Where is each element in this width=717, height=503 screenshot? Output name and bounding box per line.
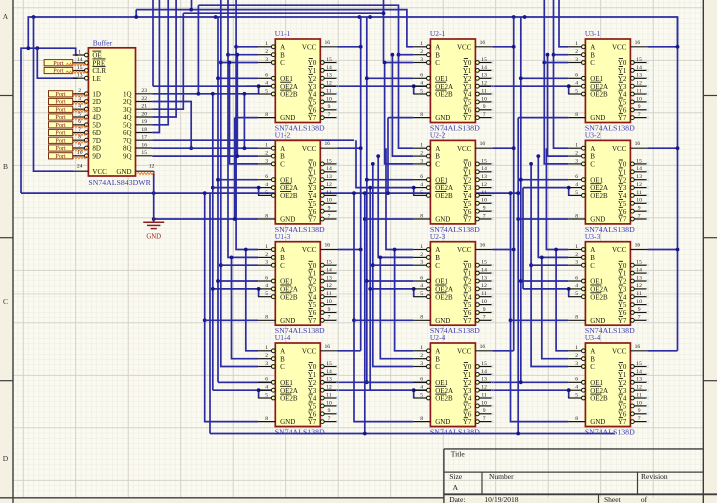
title block frame: [444, 449, 717, 503]
svg-text:7D: 7D: [92, 137, 101, 145]
decoder U1-1 pin 13 Y2: [308, 73, 339, 83]
svg-text:Y1: Y1: [308, 168, 317, 176]
wire A tap col1 row1: [236, 46, 258, 48]
svg-text:14: 14: [77, 57, 83, 63]
wire chain B4 col3: [542, 257, 568, 358]
svg-text:2: 2: [78, 88, 81, 94]
svg-text:3: 3: [78, 96, 81, 102]
svg-text:3: 3: [575, 361, 578, 367]
svg-text:U3-2: U3-2: [585, 131, 601, 140]
decoder U2-1 pin 11 Y4: [463, 88, 494, 98]
wire OE2A tap col3 row3: [523, 288, 568, 290]
wire GND tap col2 row2: [365, 218, 413, 220]
decoder U2-2 pin 9 Y6: [463, 206, 494, 216]
svg-text:Y1: Y1: [308, 270, 317, 278]
svg-text:Y0: Y0: [308, 59, 317, 67]
decoder U1-4 pin 2 B: [258, 353, 285, 363]
svg-text:A: A: [280, 43, 285, 51]
buffer SN74ALS843DWR body: [88, 48, 135, 176]
svg-text:2: 2: [575, 252, 578, 258]
wire GND horizontal net: [21, 192, 519, 194]
svg-text:Y4: Y4: [308, 91, 317, 99]
svg-text:Y4: Y4: [618, 293, 627, 301]
decoder U2-3 pin 11 Y4: [463, 291, 494, 301]
decoder U1-3 pin 15 Y0: [308, 260, 339, 270]
svg-text:8: 8: [575, 416, 578, 422]
wire GND tap col3 row3: [511, 319, 569, 321]
svg-text:1Q: 1Q: [123, 90, 132, 98]
svg-text:1: 1: [265, 345, 268, 351]
wire VCC top rail: [28, 17, 677, 48]
wire buffer 1Q output: [152, 5, 198, 94]
junction OE2A col2 row3: [368, 287, 372, 291]
decoder U3-4 pin 12 Y3: [618, 385, 649, 395]
buffer pin 21 3Q: [123, 104, 152, 114]
wire OE1 tap col3 row1: [521, 77, 568, 79]
wire OE2A rail col2: [369, 188, 371, 391]
svg-text:16: 16: [480, 344, 486, 350]
port D9: [49, 153, 73, 160]
svg-text:Title: Title: [451, 450, 466, 459]
port D6: [49, 129, 73, 136]
svg-text:14: 14: [326, 65, 332, 71]
junction GND rail B row2 col3: [516, 217, 520, 221]
wire GND tap col1 row3: [205, 319, 258, 321]
junction chain B3 top col2: [376, 154, 380, 158]
junction OE1 col1 row1: [216, 76, 220, 80]
svg-text:Y0: Y0: [618, 161, 627, 169]
svg-text:7: 7: [483, 315, 486, 321]
junction OE1 rail col1 top: [214, 15, 218, 19]
svg-text:2: 2: [265, 353, 268, 359]
wire OE2A tap col1 col2 row4: [213, 389, 413, 391]
svg-text:4: 4: [420, 81, 423, 87]
svg-text:Y5: Y5: [463, 200, 472, 208]
svg-text:OE2A: OE2A: [435, 83, 453, 91]
junction B tap col3: [552, 53, 556, 57]
decoder U1-1 pin 11 Y4: [308, 88, 339, 98]
decoder U1-2 pin 6 OE1: [258, 174, 293, 184]
junction chain B4 top col1: [230, 256, 234, 260]
decoder U1-1 pin 7 Y7: [308, 112, 339, 122]
decoder U2-4 pin 10 Y5: [463, 400, 494, 410]
svg-text:C: C: [280, 161, 285, 169]
decoder U1-2 pin 15 Y0: [308, 158, 339, 168]
decoder U1-1 pin 16 VCC: [302, 40, 338, 52]
svg-text:SN74ALS138D: SN74ALS138D: [585, 428, 635, 437]
svg-text:GND: GND: [590, 114, 605, 122]
svg-text:16: 16: [480, 243, 486, 249]
svg-text:OE1: OE1: [590, 278, 603, 286]
junction VCC rail col2: [512, 15, 516, 19]
svg-text:C: C: [435, 59, 440, 67]
wire OE2A tap col1 row3: [213, 288, 258, 290]
junction VCC col2 row2: [512, 146, 516, 150]
svg-text:Y7: Y7: [308, 317, 317, 325]
svg-text:4: 4: [78, 104, 81, 110]
decoder U2-2 pin 8 GND: [413, 213, 450, 223]
error squiggle port 2: [66, 71, 87, 73]
svg-text:Y1: Y1: [618, 67, 627, 75]
buffer pin 14 PRE: [73, 57, 106, 67]
svg-text:OE1: OE1: [590, 75, 603, 83]
decoder U3-4 pin 5 OE2B: [568, 392, 608, 402]
svg-text:3: 3: [265, 260, 268, 266]
svg-text:10: 10: [636, 299, 642, 305]
decoder U1-2 pin 14 Y1: [308, 166, 339, 176]
svg-text:13: 13: [481, 377, 487, 383]
decoder U1-1 pin 9 Y6: [308, 104, 339, 114]
svg-text:1: 1: [575, 143, 578, 149]
wire GND tap col2 row1: [388, 117, 413, 119]
decoder U1-1 pin 2 B: [258, 49, 285, 59]
svg-text:9: 9: [483, 307, 486, 313]
svg-text:A: A: [435, 43, 440, 51]
svg-text:16: 16: [635, 344, 641, 350]
decoder U2-3 pin 4 OE2A: [413, 283, 453, 293]
buffer pin 23 1Q: [123, 88, 152, 98]
junction OE1 cross col2: [365, 380, 369, 384]
buffer pin 15 9Q: [123, 150, 152, 160]
decoder U2-4 SN74ALS138D body: [430, 343, 475, 427]
junction OE1 cross col3: [519, 380, 523, 384]
decoder U3-3 pin 3 C: [568, 260, 595, 270]
decoder U2-2 pin 10 Y5: [463, 198, 494, 208]
svg-text:13: 13: [636, 377, 642, 383]
svg-text:21: 21: [141, 104, 147, 110]
junction select C col2: [382, 11, 386, 15]
svg-text:GND: GND: [280, 317, 295, 325]
svg-text:15: 15: [481, 361, 487, 367]
decoder U2-3 pin 10 Y5: [463, 299, 494, 309]
buffer pin 22 2Q: [123, 96, 152, 106]
decoder U1-4 pin 14 Y1: [308, 369, 339, 379]
svg-text:VCC: VCC: [457, 347, 472, 355]
svg-text:5: 5: [575, 392, 578, 398]
svg-text:5: 5: [575, 88, 578, 94]
svg-text:A: A: [590, 246, 595, 254]
wire select C horizontal: [183, 12, 383, 14]
wire VCC tap col1 row3: [338, 249, 361, 251]
decoder U3-1 pin 11 Y4: [618, 88, 649, 98]
junction OE2B jog col3 row4: [567, 388, 571, 392]
svg-text:12: 12: [636, 283, 642, 289]
decoder U2-1 pin 13 Y2: [463, 73, 494, 83]
svg-text:Port: Port: [55, 107, 66, 114]
wire OE1 tap col1 row1: [218, 77, 258, 79]
svg-text:Y2: Y2: [463, 75, 472, 83]
decoder U1-1 pin 10 Y5: [308, 96, 339, 106]
decoder U3-1 pin 6 OE1: [568, 73, 603, 83]
svg-text:1: 1: [575, 41, 578, 47]
decoder U2-2 pin 1 A: [413, 143, 440, 153]
svg-text:B: B: [435, 51, 440, 59]
wire VCC tap col3 row2: [648, 147, 678, 149]
svg-text:B: B: [280, 355, 285, 363]
svg-text:16: 16: [325, 141, 331, 147]
svg-text:10: 10: [481, 400, 487, 406]
wire OE2B jog col2 row3: [413, 289, 415, 297]
decoder U1-3 pin 14 Y1: [308, 268, 339, 278]
svg-text:13: 13: [481, 73, 487, 79]
wire OE2A long tap row1 col2 col3: [247, 85, 569, 87]
svg-text:15: 15: [481, 158, 487, 164]
wire select A chain col1: [236, 0, 258, 250]
svg-text:GND: GND: [435, 418, 450, 426]
junction GND rail A row3 col1: [203, 318, 207, 322]
port D3: [49, 106, 73, 113]
svg-text:Y1: Y1: [463, 67, 472, 75]
svg-text:8: 8: [78, 135, 81, 141]
decoder U3-4 pin 4 OE2A: [568, 385, 608, 395]
wire VCC rail col1: [360, 17, 362, 351]
svg-text:3: 3: [265, 158, 268, 164]
svg-text:9: 9: [328, 307, 331, 313]
decoder U3-2 pin 5 OE2B: [568, 190, 608, 200]
junction C3 col1: [219, 263, 223, 267]
junction OE1 col2 row3: [365, 279, 369, 283]
svg-text:Y2: Y2: [463, 176, 472, 184]
svg-text:Y4: Y4: [618, 91, 627, 99]
wire OE2A tap col1 row1: [153, 85, 258, 87]
error squiggle 2D: [64, 102, 88, 104]
power ground symbol: [143, 218, 164, 229]
svg-text:9: 9: [78, 142, 81, 148]
wire chain B4 col1: [232, 257, 259, 358]
wire select A to col2: [136, 10, 413, 47]
svg-text:3: 3: [420, 57, 423, 63]
decoder U1-3 pin 2 B: [258, 252, 285, 262]
svg-text:5Q: 5Q: [123, 121, 132, 129]
decoder U2-1 pin 10 Y5: [463, 96, 494, 106]
svg-text:3: 3: [265, 57, 268, 63]
svg-text:5: 5: [78, 111, 81, 117]
svg-text:Y7: Y7: [308, 216, 317, 224]
svg-text:8: 8: [420, 315, 423, 321]
junction OE2B jog col2 row2: [412, 186, 416, 190]
buffer pin 13 LE: [73, 73, 101, 83]
svg-text:C: C: [590, 59, 595, 67]
svg-text:Y6: Y6: [463, 309, 472, 317]
wire OE2B jog col3 row1: [568, 86, 570, 94]
svg-text:3: 3: [575, 158, 578, 164]
decoder U2-4 pin 7 Y7: [463, 416, 494, 426]
decoder U2-2 pin 6 OE1: [413, 174, 448, 184]
decoder U3-2 pin 6 OE1: [568, 174, 603, 184]
decoder U1-3 pin 13 Y2: [308, 275, 339, 285]
svg-text:12: 12: [636, 385, 642, 391]
svg-text:10: 10: [481, 198, 487, 204]
buffer pin 15 CLR: [73, 65, 107, 75]
buffer pin 5 4D: [73, 111, 101, 121]
svg-text:5: 5: [420, 88, 423, 94]
junction OE1 col2 row2: [365, 178, 369, 182]
decoder U2-1 pin 4 OE2A: [413, 81, 453, 91]
decoder U2-4 pin 1 A: [413, 345, 440, 355]
svg-text:8: 8: [420, 416, 423, 422]
svg-text:Port: Port: [55, 99, 66, 106]
wire B tap col3 row1: [554, 54, 569, 56]
decoder U2-2 pin 14 Y1: [463, 166, 494, 176]
svg-text:1D: 1D: [92, 90, 101, 98]
svg-text:10: 10: [481, 96, 487, 102]
svg-text:11: 11: [326, 88, 332, 94]
decoder U2-4 pin 12 Y3: [463, 385, 494, 395]
decoder U1-4 SN74ALS138D body: [275, 343, 320, 427]
svg-text:GND: GND: [435, 114, 450, 122]
svg-text:PRE: PRE: [92, 59, 105, 67]
svg-text:Port: Port: [55, 137, 66, 144]
svg-text:LE: LE: [92, 75, 101, 83]
svg-text:23: 23: [141, 88, 147, 94]
junction chain C2 top col1: [228, 61, 232, 65]
decoder U2-2 pin 7 Y7: [463, 213, 494, 223]
wire VCC tap col2 row4: [493, 350, 514, 352]
svg-text:12: 12: [636, 81, 642, 87]
svg-text:3Q: 3Q: [123, 106, 132, 114]
svg-text:Y5: Y5: [618, 200, 627, 208]
svg-text:7: 7: [638, 112, 641, 118]
svg-text:OE2A: OE2A: [280, 286, 298, 294]
svg-text:B: B: [590, 254, 595, 262]
decoder U1-3 pin 9 Y6: [308, 307, 339, 317]
svg-text:VCC: VCC: [612, 347, 627, 355]
decoder U3-2 pin 1 A: [568, 143, 595, 153]
svg-text:VCC: VCC: [457, 43, 472, 51]
svg-text:16: 16: [325, 344, 331, 350]
svg-text:11: 11: [481, 392, 487, 398]
svg-text:Y7: Y7: [463, 317, 472, 325]
svg-text:Y2: Y2: [308, 176, 317, 184]
decoder U2-1 pin 14 Y1: [463, 65, 494, 75]
decoder U2-4 pin 2 B: [413, 353, 440, 363]
decoder U2-4 pin 8 GND: [413, 416, 450, 426]
junction VCC rail col1: [358, 15, 362, 19]
decoder U3-1 SN74ALS138D body: [585, 39, 630, 123]
error squiggle 6D: [64, 133, 88, 135]
svg-text:14: 14: [326, 369, 332, 375]
svg-text:Port: Port: [53, 68, 64, 75]
svg-text:OE2B: OE2B: [590, 293, 608, 301]
decoder U2-4 pin 13 Y2: [463, 377, 494, 387]
decoder U1-3 pin 6 OE1: [258, 275, 293, 285]
wire OE1 rail col2: [366, 17, 368, 382]
junction VCC col3 row3: [676, 248, 680, 252]
decoder U3-4 pin 9 Y6: [618, 408, 649, 418]
decoder U3-2 pin 13 Y2: [618, 174, 649, 184]
svg-text:OE2A: OE2A: [435, 387, 453, 395]
decoder U2-3 pin 2 B: [413, 252, 440, 262]
svg-text:16: 16: [480, 141, 486, 147]
svg-text:VCC: VCC: [302, 43, 317, 51]
svg-text:Y1: Y1: [463, 371, 472, 379]
svg-text:9D: 9D: [92, 152, 101, 160]
decoder U2-1 pin 8 GND: [413, 112, 450, 122]
svg-text:Y6: Y6: [308, 106, 317, 114]
svg-text:B: B: [435, 254, 440, 262]
decoder U3-2 pin 9 Y6: [618, 206, 649, 216]
wire buffer LE feed: [37, 48, 77, 78]
svg-text:VCC: VCC: [302, 145, 317, 153]
svg-text:3: 3: [420, 260, 423, 266]
svg-text:11: 11: [636, 190, 642, 196]
decoder U3-1 pin 9 Y6: [618, 104, 649, 114]
junction stub: [134, 15, 138, 19]
wire chain B3 col3: [538, 156, 568, 257]
port D5: [49, 122, 73, 129]
decoder U2-3 pin 13 Y2: [463, 275, 494, 285]
svg-text:C: C: [435, 363, 440, 371]
wire VCC rail col2: [513, 17, 515, 351]
svg-text:Y3: Y3: [308, 387, 317, 395]
svg-text:11: 11: [326, 392, 332, 398]
decoder U2-2 SN74ALS138D body: [430, 140, 475, 224]
wire OE1 tap col2 row3: [367, 280, 413, 282]
junction chain A4 top col3: [554, 248, 558, 252]
wire VCC tap col3 row3: [648, 249, 678, 251]
svg-text:Y2: Y2: [463, 379, 472, 387]
svg-text:B: B: [280, 153, 285, 161]
svg-text:A: A: [590, 43, 595, 51]
svg-text:11: 11: [326, 291, 332, 297]
svg-text:8: 8: [265, 315, 268, 321]
decoder U3-2 pin 16 VCC: [612, 141, 648, 153]
svg-text:Y0: Y0: [618, 363, 627, 371]
svg-text:Y6: Y6: [618, 208, 627, 216]
svg-text:Y1: Y1: [463, 168, 472, 176]
junction GND rail A top col3: [509, 191, 513, 195]
svg-text:14: 14: [326, 268, 332, 274]
svg-text:7: 7: [483, 213, 486, 219]
svg-text:Y5: Y5: [308, 301, 317, 309]
svg-text:B: B: [3, 162, 8, 171]
svg-text:Y5: Y5: [618, 99, 627, 107]
decoder U2-4 pin 14 Y1: [463, 369, 494, 379]
svg-text:OE1: OE1: [590, 176, 603, 184]
wire OE1 tap col3 row4: [367, 381, 568, 383]
svg-text:6: 6: [420, 174, 423, 180]
svg-text:Y6: Y6: [463, 208, 472, 216]
decoder U3-3 pin 12 Y3: [618, 283, 649, 293]
svg-text:D: D: [3, 454, 9, 463]
svg-text:1: 1: [420, 143, 423, 149]
junction chain C34 top col3: [529, 162, 533, 166]
svg-text:2: 2: [420, 151, 423, 157]
svg-text:13: 13: [326, 174, 332, 180]
wire buffer 7Q output to col2 OE2A rail: [152, 139, 354, 141]
svg-text:Y5: Y5: [463, 99, 472, 107]
svg-text:10: 10: [326, 299, 332, 305]
junction OE1 col2 row1: [365, 76, 369, 80]
junction OE2B jog col2 row4: [412, 388, 416, 392]
svg-text:Y5: Y5: [308, 200, 317, 208]
svg-text:B: B: [435, 153, 440, 161]
decoder U3-3 pin 13 Y2: [618, 275, 649, 285]
junction chain B3 top col3: [536, 154, 540, 158]
decoder U2-3 pin 15 Y0: [463, 260, 494, 270]
junction 2Q on select B: [189, 8, 193, 12]
decoder U2-1 pin 15 Y0: [463, 57, 494, 67]
svg-text:9: 9: [638, 206, 641, 212]
svg-text:U3-1: U3-1: [585, 29, 601, 38]
svg-text:7: 7: [638, 416, 641, 422]
decoder U3-1 pin 16 VCC: [612, 40, 648, 52]
svg-text:SN74ALS138D: SN74ALS138D: [275, 428, 325, 437]
decoder U2-3 pin 6 OE1: [413, 275, 448, 285]
decoder U3-2 pin 10 Y5: [618, 198, 649, 208]
svg-text:OE2B: OE2B: [280, 395, 298, 403]
svg-text:5: 5: [575, 190, 578, 196]
